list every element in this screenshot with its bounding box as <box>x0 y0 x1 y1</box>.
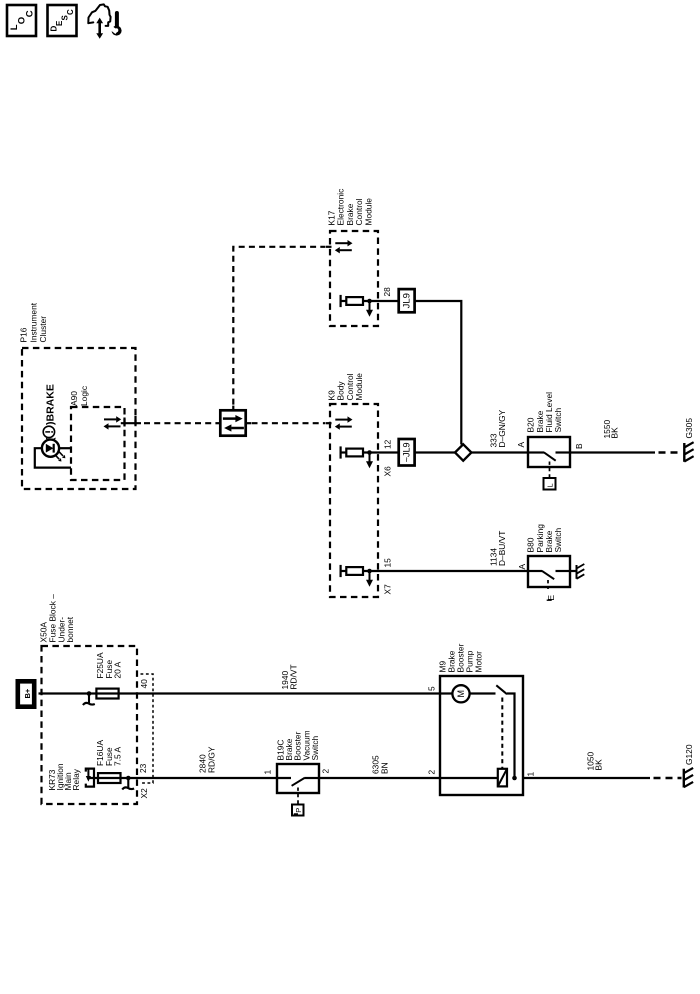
svg-text:Relay: Relay <box>71 768 81 790</box>
pin A B20 <box>516 442 526 448</box>
connector ~JL9 <box>399 439 415 466</box>
label K17 Electronic Brake Control Module <box>327 189 374 226</box>
pin 2 B19C <box>321 769 331 774</box>
fuse F25UA 20A <box>96 689 118 699</box>
fuse F16UA 7.5A <box>98 773 121 783</box>
wire 1050 BK <box>523 752 682 778</box>
svg-text:40: 40 <box>139 679 149 689</box>
svg-text:A90: A90 <box>69 391 79 406</box>
svg-text:Module: Module <box>363 198 373 226</box>
label X50A Fuse Block Underbonnet <box>39 594 75 643</box>
label B19C <box>276 730 320 760</box>
switch B20 Brake Fluid Level <box>528 437 570 490</box>
symbol P below B19C <box>292 805 304 816</box>
pin 28 <box>382 287 392 297</box>
label BRAKE indicator <box>43 384 56 441</box>
svg-text:RD/VT: RD/VT <box>289 664 299 689</box>
wire ignition feed 2840 <box>87 777 291 779</box>
svg-text:Switch: Switch <box>310 735 320 760</box>
pin 2 M9 <box>427 770 437 775</box>
wire 6305 BN <box>319 755 498 778</box>
junction in M9 <box>512 776 517 781</box>
svg-text:BK: BK <box>594 759 604 771</box>
svg-text:B+: B+ <box>23 688 32 698</box>
motor symbol M <box>452 685 495 702</box>
label B80 <box>526 524 563 553</box>
svg-text:Switch: Switch <box>553 527 563 552</box>
svg-text:X7: X7 <box>383 584 393 595</box>
wire ~JL9 to splice <box>415 451 455 453</box>
splice diamond <box>455 444 471 460</box>
svg-text:P16: P16 <box>19 327 29 342</box>
LED emission arrows <box>55 452 65 462</box>
module K9 box <box>330 404 378 597</box>
svg-text:BN: BN <box>380 762 390 774</box>
pin 12 X6 <box>383 439 393 476</box>
svg-text:A: A <box>517 564 527 570</box>
svg-text:D–BU/VT: D–BU/VT <box>497 531 507 566</box>
connector JL9 <box>399 289 415 312</box>
icon wrench <box>108 13 121 36</box>
battery B+ terminal <box>18 681 34 706</box>
svg-text:P: P <box>294 808 303 813</box>
module A90 Logic box <box>71 407 125 480</box>
switch B19C Brake Booster Vacuum <box>277 764 319 804</box>
ground G305 <box>684 418 694 462</box>
wire B+ feed 1940 <box>39 692 453 694</box>
svg-text:Instrument: Instrument <box>28 302 38 342</box>
icon vehicle outline <box>88 4 110 26</box>
ground at B80 <box>570 564 584 579</box>
svg-text:BK: BK <box>610 427 620 439</box>
svg-text:M: M <box>456 690 466 698</box>
svg-text:G305: G305 <box>684 418 694 439</box>
svg-text:Switch: Switch <box>553 407 563 432</box>
svg-text:2: 2 <box>321 769 331 774</box>
svg-text:D–GN/GY: D–GN/GY <box>497 409 507 447</box>
pin 23 <box>138 763 148 773</box>
indicator lamp LED circle <box>42 440 59 457</box>
switch contact in M9 <box>496 685 514 778</box>
svg-text:1: 1 <box>263 770 273 775</box>
connector X2 bracket <box>139 674 153 799</box>
svg-text:15: 15 <box>383 558 393 568</box>
serial data symbol A90 <box>104 416 142 430</box>
svg-text:)BRAKE: )BRAKE <box>45 384 57 425</box>
label K9 Body Control Module <box>327 373 365 401</box>
serial data symbol K9 <box>335 416 353 429</box>
hook after F16UA <box>122 778 134 790</box>
wire 1940 RD/VT label <box>280 664 299 689</box>
terminator resistor K17 pin 28 <box>341 295 399 317</box>
terminator resistor K9 pin 12 <box>341 446 399 468</box>
terminator resistor K9 pin 15 <box>341 565 528 587</box>
pin 5 M9 <box>427 686 437 691</box>
svg-text:G120: G120 <box>684 744 694 765</box>
motor M9 box <box>440 676 523 795</box>
svg-text:B: B <box>574 443 584 449</box>
label F16UA Fuse 7.5 A <box>95 740 123 766</box>
svg-text:L: L <box>9 24 20 30</box>
fuse block X50A box <box>42 646 138 804</box>
svg-text:Cluster: Cluster <box>38 316 48 343</box>
svg-text:L: L <box>546 483 555 487</box>
junction before F25UA <box>87 691 92 696</box>
pin 1 M9 <box>526 772 536 777</box>
wire 1550 BK <box>570 420 682 453</box>
wire lamp loop <box>35 448 71 467</box>
gateway symbol <box>216 406 252 436</box>
label M9 Brake Booster Pump Motor <box>438 643 484 672</box>
svg-text:20 A: 20 A <box>113 661 123 678</box>
label A90 Logic <box>69 386 89 406</box>
svg-text:X2: X2 <box>139 788 149 799</box>
svg-text:A: A <box>516 442 526 448</box>
svg-text:bonnet: bonnet <box>65 616 75 642</box>
label P16 Instrument Cluster <box>19 302 49 342</box>
svg-text:12: 12 <box>383 439 393 449</box>
svg-text:X6: X6 <box>383 466 393 477</box>
icon up-down arrow <box>96 18 103 39</box>
label F25UA Fuse 20 A <box>95 652 123 678</box>
pin 15 X7 <box>383 558 393 595</box>
svg-text:RD/GY: RD/GY <box>207 746 217 773</box>
svg-text:C: C <box>66 9 75 15</box>
ground G120 <box>684 744 694 787</box>
label KR73 Ignition Main Relay <box>47 763 81 790</box>
svg-text:Motor: Motor <box>473 651 483 673</box>
label B20 <box>526 392 563 433</box>
svg-text:C: C <box>24 10 35 17</box>
bus continuation hook <box>83 694 95 706</box>
module P16 Instrument Cluster box <box>22 348 136 489</box>
svg-text:JL9: JL9 <box>401 293 412 308</box>
svg-text:1: 1 <box>526 772 536 777</box>
svg-text:28: 28 <box>382 287 392 297</box>
junction after F16UA <box>126 776 131 781</box>
wire serial data gateway to K17 <box>233 247 331 405</box>
svg-text:~JL9: ~JL9 <box>401 442 411 462</box>
pin 40 <box>139 679 149 689</box>
pin B B20 <box>574 443 584 449</box>
wire 333 D-GN/GY <box>471 409 528 452</box>
wire 2840 RD/GY label <box>198 746 217 773</box>
wire 1134 D-BU/VT <box>378 570 528 572</box>
svg-text:Logic: Logic <box>79 386 89 406</box>
module K17 box <box>330 231 378 326</box>
pin A B80 <box>517 564 527 570</box>
wire JL9 to splice <box>415 301 462 445</box>
svg-text:2: 2 <box>427 770 437 775</box>
pin 1 B19C <box>263 770 273 775</box>
wire serial data gateway to K9 <box>252 422 332 424</box>
svg-text:23: 23 <box>138 763 148 773</box>
wire 1134 D-BU/VT label <box>489 531 508 566</box>
icon LOC box <box>7 5 36 36</box>
svg-text:Module: Module <box>354 373 364 401</box>
wire serial data A90 to gateway <box>144 422 216 424</box>
svg-text:5: 5 <box>427 686 437 691</box>
icon DESC box <box>48 5 77 36</box>
serial data symbol K17 <box>335 240 353 253</box>
relay element in M9 <box>498 769 507 787</box>
switch B80 Parking Brake <box>528 556 570 601</box>
svg-text:7.5 A: 7.5 A <box>113 746 123 766</box>
relay KR73 contact <box>86 769 94 787</box>
